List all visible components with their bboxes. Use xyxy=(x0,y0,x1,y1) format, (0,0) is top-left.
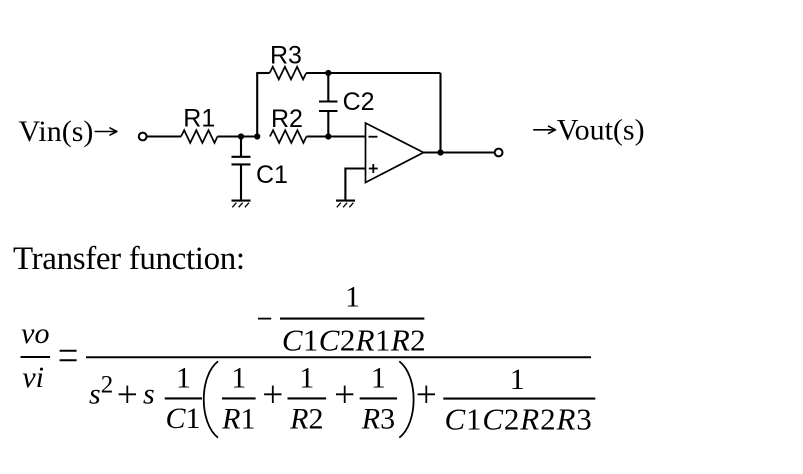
formula denominator: fraction 1/C1C2R2R3 xyxy=(443,363,595,437)
op-amp U1 xyxy=(366,123,424,183)
svg-text:C1: C1 xyxy=(256,161,288,189)
wire input to R1 xyxy=(147,135,181,137)
svg-text:1: 1 xyxy=(176,362,191,395)
formula: right parenthesis xyxy=(399,361,413,437)
svg-text:R2: R2 xyxy=(271,105,303,133)
svg-text:Transfer function:: Transfer function: xyxy=(13,241,245,277)
resistor R3 xyxy=(270,67,307,80)
formula: vo/vi fraction xyxy=(21,317,51,394)
wire R2 to node D xyxy=(307,135,329,137)
svg-text:R2: R2 xyxy=(289,403,323,436)
wire rail to R3 xyxy=(256,72,269,74)
svg-text:R3: R3 xyxy=(270,42,302,70)
node B junction (R3 branch) xyxy=(254,133,260,139)
wire R1 to node A xyxy=(218,135,258,137)
formula denominator: fraction 1/R1 xyxy=(221,362,255,436)
capacitor C1 xyxy=(232,137,251,201)
wire non-inverting input xyxy=(345,169,365,201)
svg-text:1: 1 xyxy=(299,362,314,395)
formula denominator: fraction 1/R3 xyxy=(360,362,397,436)
node A junction (C1 tap) xyxy=(238,133,244,139)
svg-text:R3: R3 xyxy=(361,403,395,436)
svg-text:C1C2R2R3: C1C2R2R3 xyxy=(445,402,593,437)
formula denominator: fraction 1/R2 xyxy=(288,362,327,436)
node C junction (C2 top) xyxy=(325,70,331,76)
svg-text:1: 1 xyxy=(510,363,525,396)
resistor R1 xyxy=(181,130,218,143)
op-amp non-inverting pin mark + xyxy=(369,164,378,173)
formula denominator: plus 1 xyxy=(119,386,136,403)
wire feedback down to output xyxy=(439,73,441,153)
capacitor C2 xyxy=(319,73,338,137)
wire node D to op-amp inverting input xyxy=(328,135,365,137)
svg-text:1: 1 xyxy=(231,362,246,395)
svg-text:C1C2R1R2: C1C2R1R2 xyxy=(282,322,426,357)
formula numerator: minus sign xyxy=(258,318,271,320)
ground (C1) xyxy=(232,201,251,208)
arrow before Vout(s) xyxy=(534,126,556,133)
formula denominator: plus 4 xyxy=(418,386,435,403)
svg-text:R1: R1 xyxy=(183,105,215,133)
formula: equals sign xyxy=(60,351,77,361)
op-amp inverting pin mark - xyxy=(369,136,378,138)
wire op-amp output to node E xyxy=(424,151,495,153)
formula: left parenthesis xyxy=(204,361,218,437)
formula numerator fraction bar xyxy=(280,318,424,320)
output terminal xyxy=(495,149,503,157)
svg-text:C1: C1 xyxy=(166,402,201,435)
wire R3 to node C xyxy=(306,72,328,74)
formula denominator: plus 2 xyxy=(264,386,281,403)
node E junction (feedback tap) xyxy=(437,149,443,155)
svg-text:Vout(s): Vout(s) xyxy=(557,114,645,147)
ground (op-amp +) xyxy=(336,201,355,208)
resistor R2 xyxy=(270,130,307,143)
wire node B up to R3 rail xyxy=(256,73,258,137)
formula denominator: plus 3 xyxy=(336,386,353,403)
formula denominator: fraction 1/C1 xyxy=(165,362,202,435)
node D junction (C2 bottom / inverting input) xyxy=(325,133,331,139)
svg-text:1: 1 xyxy=(345,281,360,314)
svg-text:R1: R1 xyxy=(221,403,255,436)
svg-text:Vin(s): Vin(s) xyxy=(19,115,94,148)
svg-text:C2: C2 xyxy=(343,88,375,116)
svg-text:2: 2 xyxy=(101,371,114,398)
formula: main fraction bar xyxy=(86,356,591,358)
arrow after Vin(s) xyxy=(95,128,117,135)
svg-text:s: s xyxy=(143,378,155,411)
input terminal xyxy=(139,133,147,141)
wire node C to feedback corner xyxy=(328,72,440,74)
svg-text:vi: vi xyxy=(22,361,44,394)
svg-text:1: 1 xyxy=(371,362,386,395)
svg-text:vo: vo xyxy=(21,317,49,350)
svg-text:s: s xyxy=(89,378,101,411)
